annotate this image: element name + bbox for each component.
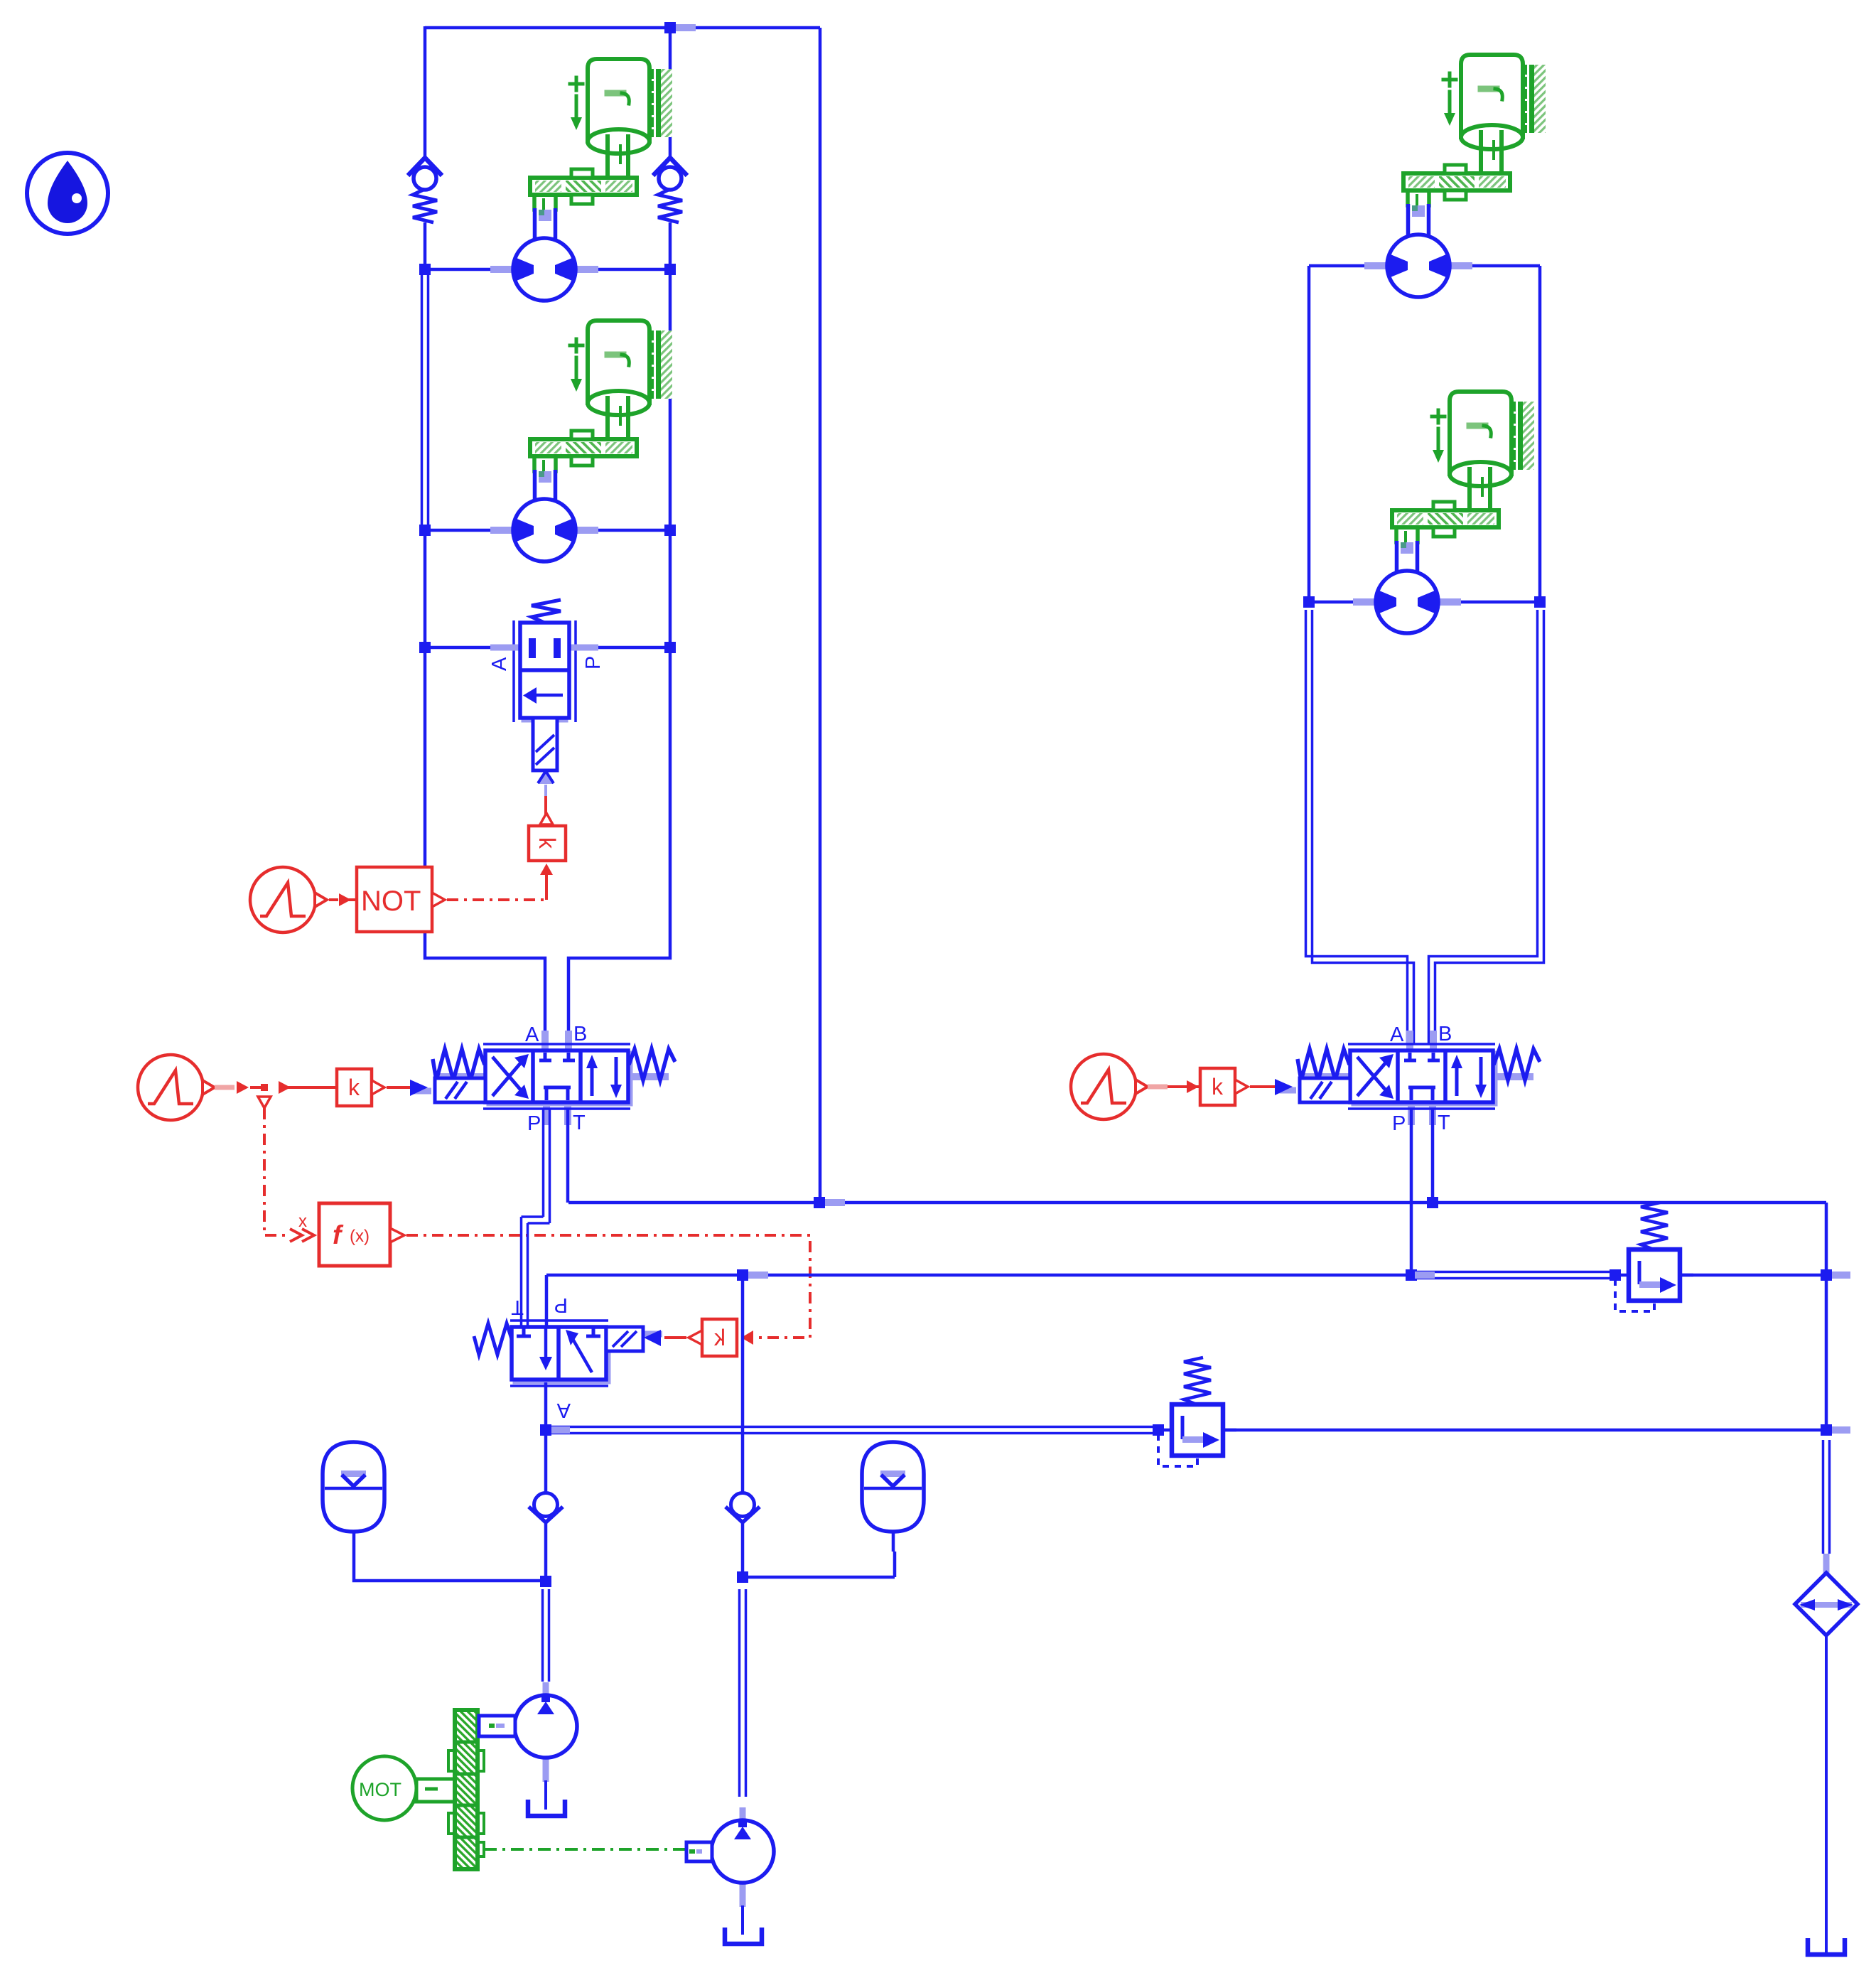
svg-text:P: P [554,1294,568,1316]
load W3 [1403,55,1546,205]
tank T1 [528,1800,565,1816]
pipe bottom supply [546,1427,1158,1434]
pipe V2 P to V3 [522,1108,550,1328]
load W2 [530,321,672,471]
signal generator SG2 [138,1055,215,1120]
shaft link gearbox to P2 [484,1848,686,1851]
signal generator SG3 [1071,1054,1148,1119]
wire motor M1 line [425,268,670,272]
wire far-right return riser [819,28,822,1203]
svg-text:MOT: MOT [359,1779,401,1800]
motor M1 [490,238,598,301]
wire AC1 to junction [354,1532,546,1581]
wire RV1 to drain riser [1680,1274,1826,1277]
wire CV4 to junction [741,1522,745,1578]
signal wire SG2 branch [215,1081,337,1108]
wire V4 P riser [1410,1108,1413,1275]
accumulator AC1 [323,1442,384,1532]
load W1 [530,59,672,210]
signal generator SG1 [250,867,327,932]
wire P1 to tank [544,1780,547,1810]
logic NOT block [329,867,445,932]
check valve CV3 [529,1493,563,1523]
pump P2 [711,1807,774,1907]
right circuit left rail [1308,266,1311,607]
wire RV2 to drain riser [1223,1429,1826,1432]
wire left branch lower [425,529,545,1045]
valve V3 3/2 [474,1294,643,1421]
pipe right circuit right leg [1429,610,1544,1045]
motor M2 [490,499,598,561]
pipe to pump P1 [543,1589,549,1682]
svg-text:(x): (x) [350,1227,370,1246]
wire V3 A drop [544,1382,548,1430]
wire motor M4 line [1309,601,1540,604]
shaft W4-M4 [1397,541,1418,574]
signal arrow into valve V3 [643,1330,662,1346]
pipe to pump P2 [740,1589,746,1797]
relief valve RV1 [1615,1203,1693,1311]
wire CV3 to junction [544,1432,548,1582]
wire exchanger to tank [1825,1635,1828,1953]
right circuit right rail [1538,266,1542,607]
svg-text:NOT: NOT [361,886,421,917]
wire AC2 to junction [743,1532,895,1577]
wire pump2 riser [741,1275,745,1493]
check valve CV1 [408,158,442,222]
wire right branch lower [568,222,670,1045]
signal arrow into valve V4 [1275,1079,1296,1095]
junction highlight streaks [551,24,1850,1434]
signal wire SG3 to k4 [1148,1080,1200,1093]
wire pressure rail [546,1274,1409,1277]
pipe left branch double [422,271,428,529]
wire top header [425,26,820,30]
shaft gearbox to P1 [479,1716,515,1736]
wire motor M3 line [1309,264,1540,268]
gain k4 [1200,1068,1275,1105]
svg-text:T: T [511,1296,524,1318]
signal wire fx to k3 [406,1235,810,1338]
shaft W3-M3 [1408,204,1429,238]
function block f(x) [290,1203,404,1266]
wire V3 P riser [545,1275,549,1329]
motor M4 [1353,571,1461,633]
wire drain riser right [1825,1203,1828,1431]
wire P2 to tank [741,1905,744,1935]
accumulator AC2 [862,1442,924,1532]
svg-text:A: A [488,657,511,671]
tank T3 [1808,1938,1845,1955]
valve V4 4/3 proportional [1298,1023,1540,1135]
heat exchanger [1795,1554,1858,1635]
valve V1 2/2 unloading [488,600,605,770]
pump P1 [514,1682,577,1782]
pipe drain to exchanger [1823,1440,1830,1554]
pipe pressure rail right [1411,1272,1615,1279]
load W4 [1392,392,1534,542]
wire motor M2 line [425,529,670,532]
pipe right circuit left leg [1306,610,1414,1045]
check valve CV2 [653,158,687,222]
shaft stub P2 [686,1842,712,1861]
gearbox [448,1710,484,1869]
valve V2 4/3 proportional [433,1023,675,1135]
svg-text:A: A [556,1399,571,1421]
wire valve V1 line [425,646,670,650]
wire right branch upper [669,26,672,156]
check valve CV4 [726,1493,760,1523]
signal arrow into V1 solenoid [538,771,554,824]
shaft W1-M1 [535,208,556,242]
wire V4 T riser [1431,1108,1435,1203]
signal wire SG2 to fx [264,1108,290,1235]
signal arrow into valve V2 [410,1080,431,1096]
tank T2 [725,1928,762,1944]
oil drop emblem [27,153,108,234]
svg-text:P: P [582,656,605,670]
shaft W2-M2 [535,470,556,503]
gain k1 [529,813,566,900]
motor M3 [1364,235,1472,297]
relief valve RV2 [1158,1358,1236,1466]
gain k3 [664,1319,753,1356]
signal wire NOT to k1 [447,877,546,900]
gain k2 [337,1069,410,1106]
wire left branch to motor line [424,222,427,269]
wire left branch upper [424,26,427,156]
wire V2 T return [568,1108,1826,1203]
electric motor MOT [352,1756,455,1820]
